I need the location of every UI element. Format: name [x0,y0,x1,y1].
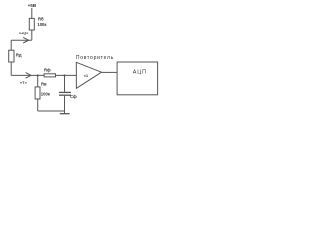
connector arrow on net T [26,73,31,79]
resistor R4 (Rв 100к) body [35,87,40,99]
wire from R2 bottom down to net T [10,62,12,75]
ADC block U2 label АЦП [133,69,147,75]
op-amp U1 gain label x1 [84,73,89,78]
svg-text:Сф: Сф [70,94,77,99]
capacitor C1 (Сф) bottom plate [59,94,71,96]
op-amp U1 triangle [76,62,101,88]
wire ground rail [38,110,65,112]
wire C1 top lead [64,75,66,92]
junction node at C1 top [64,74,66,76]
power +5V label [28,3,37,8]
junction node at R4 top [37,74,39,76]
resistor R1 (Rб 100к) body [29,18,34,30]
svg-text:×1: ×1 [84,73,89,78]
node «+U» label [19,31,29,36]
resistor R1 value label Rб [38,16,44,21]
svg-text:Rф: Rф [44,68,51,73]
svg-text:Повторитель: Повторитель [76,55,114,61]
wire op-amp output to ADC [102,71,118,73]
wire horizontal net T to R3 left [11,74,44,76]
svg-text:АЦП: АЦП [133,69,147,75]
svg-text:100к: 100к [37,22,47,27]
connector arrow on net +U [23,37,28,43]
wire R3 right to op-amp input [55,74,76,76]
svg-text:+5В: +5В [28,3,37,8]
wire horizontal net +U [11,39,32,41]
node «Т» label [20,80,28,85]
svg-text:«+U»: «+U» [19,31,29,36]
resistor R1 value label 100к [37,22,47,27]
ground symbol [60,113,70,115]
wire R4 bottom to ground rail [37,99,39,111]
resistor R3 (Rф) body [44,74,55,77]
wire from R1 bottom down to node +U wire [31,30,33,40]
wire C1 bottom lead to ground [64,96,66,114]
resistor R4 value label 100к [41,91,51,96]
resistor R4 label Rв [41,82,47,87]
capacitor C1 label Сф [70,94,77,99]
svg-text:Rд: Rд [16,52,22,57]
wire junction down to R4 [37,75,39,87]
svg-text:Rб: Rб [38,16,44,21]
wire from +5V to R1 top [31,8,33,18]
wire from +U corner down to R2 top [10,40,12,50]
resistor R2 (Rд) body [9,50,14,62]
ADC block U2 box [117,62,158,95]
resistor R2 label Rд [16,52,22,57]
svg-text:Rв: Rв [41,82,47,87]
capacitor C1 (Сф) top plate [59,91,71,93]
svg-text:«Т»: «Т» [20,80,28,85]
svg-text:100к: 100к [41,91,51,96]
resistor R3 label Rф [44,68,51,73]
op-amp U1 follower label [76,55,114,61]
